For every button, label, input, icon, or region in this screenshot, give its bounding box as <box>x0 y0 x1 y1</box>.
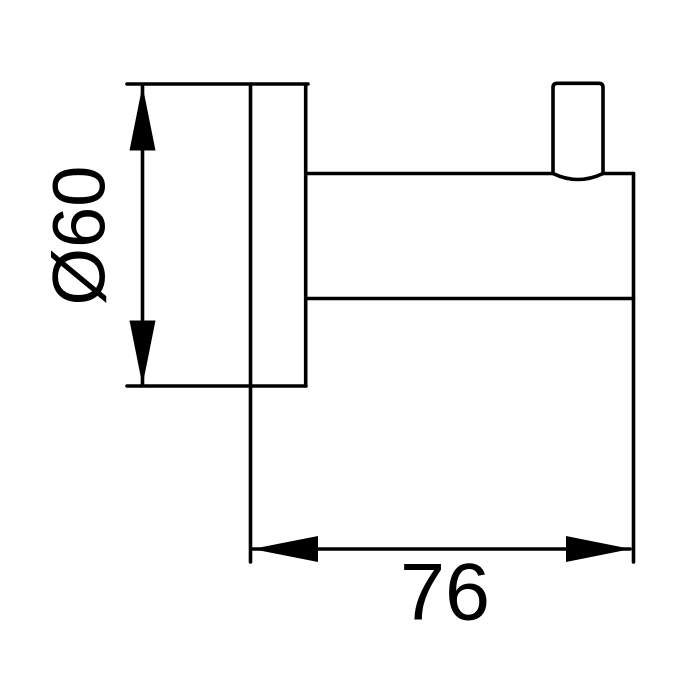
hook arm bottom edge <box>306 297 634 301</box>
hook arm top edge <box>306 172 553 176</box>
extension line top (plate top / dim Ø60) <box>127 82 308 86</box>
wall plate (mounting flange, side view) <box>251 84 306 386</box>
dimension line Ø60 (vertical) <box>141 86 145 385</box>
arrowhead right (dim 76) <box>566 536 631 562</box>
extension line left for dim 76 <box>249 386 253 562</box>
svg-text:76: 76 <box>400 548 490 638</box>
svg-text:Ø60: Ø60 <box>38 166 121 306</box>
arrowhead down (dim Ø60 bottom) <box>130 321 156 386</box>
hook arm top edge right segment <box>603 172 634 176</box>
arrowhead up (dim Ø60 top) <box>130 86 156 151</box>
hook arm right edge + extension line for dim 76 <box>632 174 636 563</box>
peg (vertical post) <box>553 83 603 173</box>
dimension line 76 (horizontal) <box>253 547 630 551</box>
peg root arc (round peg meets arm) <box>553 174 603 180</box>
extension line bottom (plate bottom / dim Ø60) <box>127 384 306 388</box>
arrowhead left (dim 76) <box>252 536 318 562</box>
